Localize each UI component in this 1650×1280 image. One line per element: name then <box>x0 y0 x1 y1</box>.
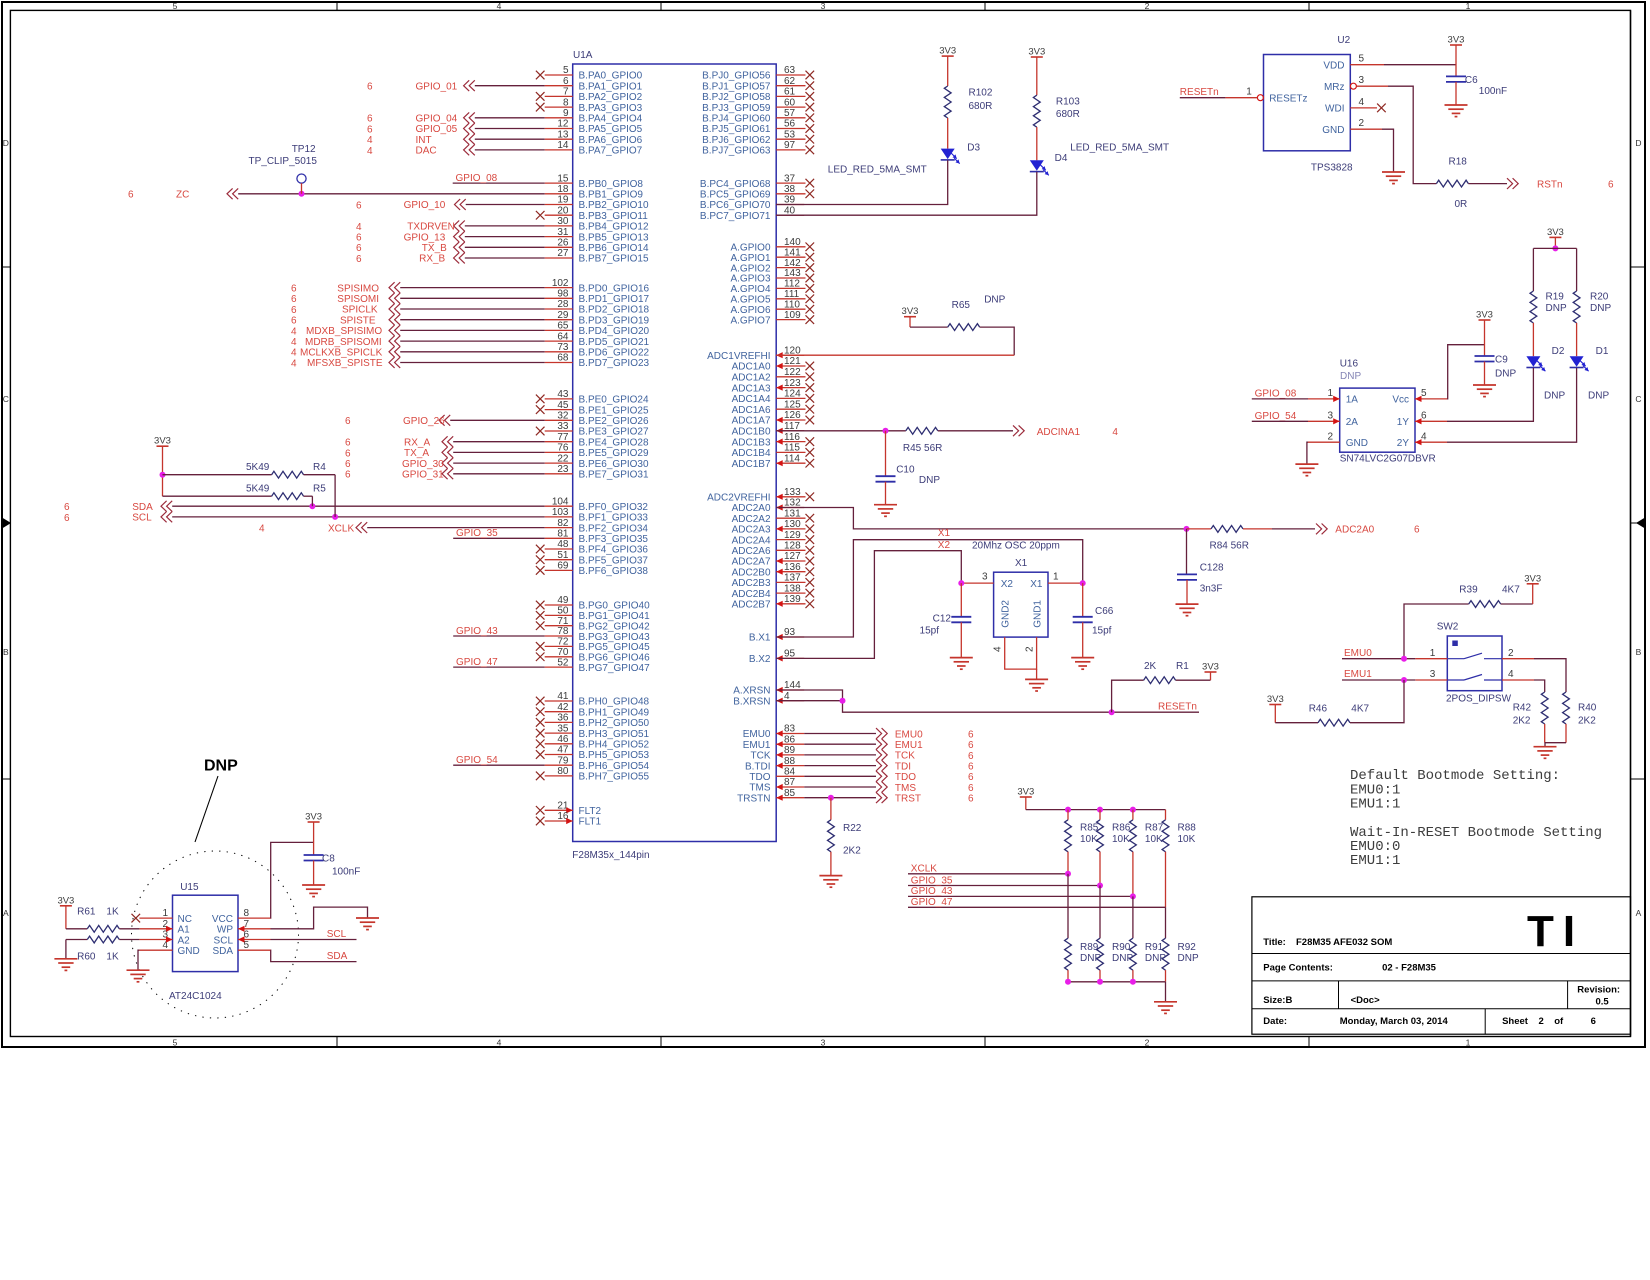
svg-text:GPIO_30: GPIO_30 <box>402 459 444 470</box>
svg-text:R22: R22 <box>843 823 862 834</box>
svg-text:56: 56 <box>784 119 796 130</box>
wire GPIO_43 <box>453 626 545 637</box>
svg-text:3: 3 <box>821 1038 826 1048</box>
wire RX_B <box>356 253 545 265</box>
svg-text:C8: C8 <box>322 854 335 865</box>
svg-text:TRST: TRST <box>895 794 921 805</box>
svg-text:R103: R103 <box>1056 97 1080 108</box>
svg-text:B.PJ5_GPIO61: B.PJ5_GPIO61 <box>702 124 771 135</box>
svg-text:R102: R102 <box>969 88 993 99</box>
svg-text:ADC2A2: ADC2A2 <box>732 514 771 525</box>
svg-text:02 - F28M35: 02 - F28M35 <box>1382 963 1437 974</box>
svg-text:GPIO_01: GPIO_01 <box>416 81 458 92</box>
svg-text:VCC: VCC <box>212 914 233 925</box>
svg-text:B.PB6_GPIO14: B.PB6_GPIO14 <box>579 243 649 254</box>
svg-text:ADC1A6: ADC1A6 <box>732 405 771 416</box>
svg-text:3V3: 3V3 <box>902 306 919 317</box>
svg-text:10K: 10K <box>1178 834 1196 845</box>
wire MDXB_SPISIMO <box>291 325 545 337</box>
ground (SW2 pulldowns) <box>1534 747 1557 759</box>
wire ZC with TP12 junction <box>128 188 545 200</box>
svg-text:B.PH6_GPIO54: B.PH6_GPIO54 <box>579 761 650 772</box>
svg-text:6: 6 <box>356 200 362 211</box>
svg-text:48: 48 <box>557 539 569 550</box>
svg-text:R86: R86 <box>1112 823 1131 834</box>
power 3V3 (R65) <box>902 306 919 327</box>
svg-text:of: of <box>1554 1016 1564 1027</box>
svg-text:143: 143 <box>784 268 801 279</box>
svg-text:B.PA4_GPIO4: B.PA4_GPIO4 <box>579 114 643 125</box>
svg-text:9: 9 <box>563 108 569 119</box>
svg-text:3: 3 <box>982 572 988 583</box>
svg-text:3V3: 3V3 <box>1028 47 1045 58</box>
LED D1 DNP <box>1570 323 1610 402</box>
svg-text:B.PG0_GPIO40: B.PG0_GPIO40 <box>579 601 651 612</box>
wire TCK <box>804 750 974 762</box>
svg-text:R92: R92 <box>1178 942 1197 953</box>
wire SDA (U15) <box>271 950 357 962</box>
svg-text:B.PF6_GPIO38: B.PF6_GPIO38 <box>579 566 649 577</box>
svg-text:TMS: TMS <box>895 783 916 794</box>
svg-text:76: 76 <box>557 443 569 454</box>
svg-text:3: 3 <box>1359 75 1365 86</box>
wire U16 Vcc to 3V3 <box>1447 345 1485 399</box>
svg-text:B.PC5_GPIO69: B.PC5_GPIO69 <box>700 190 771 201</box>
svg-text:DNP: DNP <box>1544 391 1565 402</box>
oscillator X1 20Mhz OSC 20ppm <box>958 541 1085 680</box>
svg-text:35: 35 <box>557 723 569 734</box>
wire SCL (U15) <box>271 929 357 940</box>
svg-text:4: 4 <box>291 337 297 348</box>
svg-text:1: 1 <box>1430 648 1436 659</box>
svg-text:ADCINA1: ADCINA1 <box>1037 427 1081 438</box>
svg-text:B.PE1_GPIO25: B.PE1_GPIO25 <box>579 405 649 416</box>
ground (C66) <box>1071 658 1094 670</box>
svg-text:B.PA1_GPIO1: B.PA1_GPIO1 <box>579 81 643 92</box>
svg-text:GND: GND <box>1322 125 1344 136</box>
svg-text:WP: WP <box>217 925 233 936</box>
svg-text:77: 77 <box>557 432 569 443</box>
svg-text:B.PE2_GPIO26: B.PE2_GPIO26 <box>579 416 649 427</box>
svg-text:WDI: WDI <box>1325 104 1344 115</box>
resistor R46 4K7 with 3V3 <box>1267 680 1404 726</box>
svg-text:3V3: 3V3 <box>939 46 956 57</box>
svg-text:6: 6 <box>291 305 297 316</box>
svg-text:142: 142 <box>784 258 801 269</box>
svg-text:U1A: U1A <box>573 50 593 61</box>
svg-text:2: 2 <box>1145 1038 1150 1048</box>
svg-text:DAC: DAC <box>416 146 437 157</box>
svg-text:3V3: 3V3 <box>1202 662 1219 673</box>
svg-text:RX_A: RX_A <box>404 437 430 448</box>
svg-text:GPIO_10: GPIO_10 <box>404 200 446 211</box>
wire GPIO_13 <box>356 231 545 243</box>
svg-text:26: 26 <box>557 238 569 249</box>
svg-text:49: 49 <box>557 595 569 606</box>
wire EMU1 <box>804 739 974 751</box>
svg-text:B.PH7_GPIO55: B.PH7_GPIO55 <box>579 772 650 783</box>
svg-text:3V3: 3V3 <box>57 895 74 906</box>
svg-text:6: 6 <box>345 438 351 449</box>
svg-text:52: 52 <box>557 657 569 668</box>
wire D3 cathode to pin 39 <box>776 160 948 204</box>
svg-text:3V3: 3V3 <box>154 436 171 447</box>
svg-text:80: 80 <box>557 766 569 777</box>
svg-text:C6: C6 <box>1465 75 1478 86</box>
svg-text:98: 98 <box>557 289 569 300</box>
wire TX_A <box>345 447 545 459</box>
svg-text:6: 6 <box>1414 525 1420 536</box>
svg-text:B.PA5_GPIO5: B.PA5_GPIO5 <box>579 124 643 135</box>
svg-text:6: 6 <box>563 76 569 87</box>
ground (U15 WP) <box>356 918 379 930</box>
svg-text:R60: R60 <box>77 952 96 963</box>
svg-text:B.PG2_GPIO42: B.PG2_GPIO42 <box>579 621 651 632</box>
svg-text:B.PH3_GPIO51: B.PH3_GPIO51 <box>579 729 650 740</box>
svg-text:6: 6 <box>291 284 297 295</box>
wire TX_B <box>356 242 545 254</box>
svg-text:31: 31 <box>557 227 569 238</box>
svg-text:B.PE6_GPIO30: B.PE6_GPIO30 <box>579 459 649 470</box>
svg-text:D4: D4 <box>1055 153 1068 164</box>
svg-text:127: 127 <box>784 551 801 562</box>
wire TXDRVEN <box>356 221 545 233</box>
svg-text:ADC2A7: ADC2A7 <box>732 557 771 568</box>
svg-text:B.XRSN: B.XRSN <box>733 696 770 707</box>
title block <box>1252 897 1631 1034</box>
svg-text:R90: R90 <box>1112 942 1131 953</box>
svg-text:3: 3 <box>1430 669 1436 680</box>
test point TP12 <box>249 144 318 194</box>
svg-text:4: 4 <box>497 1 502 11</box>
svg-text:33: 33 <box>557 421 569 432</box>
svg-text:GPIO_26: GPIO_26 <box>403 416 445 427</box>
svg-text:EMU0: EMU0 <box>743 729 771 740</box>
svg-text:1: 1 <box>1246 87 1252 98</box>
svg-text:LED_RED_5MA_SMT: LED_RED_5MA_SMT <box>828 165 927 176</box>
wire TRST <box>804 792 974 804</box>
svg-text:133: 133 <box>784 487 801 498</box>
svg-text:SPICLK: SPICLK <box>342 305 378 316</box>
svg-text:114: 114 <box>784 453 800 464</box>
wire U15 VCC to C8 <box>271 842 314 918</box>
svg-text:GPIO_43: GPIO_43 <box>911 886 953 897</box>
svg-text:F28M35 AFE032 SOM: F28M35 AFE032 SOM <box>1296 937 1392 948</box>
ground (U16 GND) <box>1295 442 1318 476</box>
svg-text:A.GPIO6: A.GPIO6 <box>730 305 770 316</box>
svg-text:A: A <box>1636 908 1642 918</box>
svg-text:R84 56R: R84 56R <box>1210 541 1249 552</box>
svg-text:115: 115 <box>784 443 800 454</box>
svg-text:100nF: 100nF <box>1479 86 1507 97</box>
wire GPIO_43 (bootmode) <box>908 886 1136 899</box>
svg-text:R1: R1 <box>1176 661 1189 672</box>
svg-text:109: 109 <box>784 310 801 321</box>
svg-text:20: 20 <box>557 205 569 216</box>
svg-text:ADC2B3: ADC2B3 <box>732 578 771 589</box>
svg-text:GPIO_47: GPIO_47 <box>456 657 498 668</box>
svg-text:Date:: Date: <box>1263 1016 1287 1027</box>
svg-text:ADC2A6: ADC2A6 <box>732 546 771 557</box>
resistor R60 1K <box>66 936 139 962</box>
wire GPIO_35 <box>453 528 545 539</box>
svg-text:69: 69 <box>557 561 569 572</box>
svg-text:MDXB_SPISIMO: MDXB_SPISIMO <box>306 326 382 337</box>
wire INT <box>367 134 545 146</box>
svg-text:C12: C12 <box>933 614 952 625</box>
wire SPISOMI <box>291 293 545 305</box>
svg-text:B.PJ0_GPIO56: B.PJ0_GPIO56 <box>702 71 771 82</box>
wire XCLK (bootmode) <box>908 864 1071 877</box>
svg-text:6: 6 <box>367 124 373 135</box>
capacitor C8 100nF with 3V3 <box>304 812 361 886</box>
LED D4 <box>1030 127 1169 175</box>
svg-text:6: 6 <box>291 316 297 327</box>
svg-text:ADC2B4: ADC2B4 <box>732 589 771 600</box>
svg-text:AT24C1024: AT24C1024 <box>169 991 222 1002</box>
svg-text:1Y: 1Y <box>1397 417 1410 428</box>
svg-text:ADC2A0: ADC2A0 <box>732 503 771 514</box>
svg-text:B.PA2_GPIO2: B.PA2_GPIO2 <box>579 92 643 103</box>
power 3V3 (R103) <box>1028 47 1045 96</box>
svg-text:C: C <box>1635 394 1641 404</box>
svg-text:2: 2 <box>1539 1016 1544 1027</box>
svg-text:MRz: MRz <box>1324 82 1345 93</box>
svg-text:A1: A1 <box>178 925 191 936</box>
svg-text:6: 6 <box>1591 1016 1596 1027</box>
svg-text:A.GPIO5: A.GPIO5 <box>730 295 770 306</box>
svg-text:B: B <box>3 647 9 657</box>
svg-text:6: 6 <box>356 254 362 265</box>
resistor R22 2K2 <box>828 798 862 876</box>
svg-text:Monday, March 03, 2014: Monday, March 03, 2014 <box>1340 1016 1449 1027</box>
wire GPIO_47 <box>453 657 545 668</box>
svg-text:X1: X1 <box>1030 579 1043 590</box>
svg-text:36: 36 <box>557 713 569 724</box>
wire SCL <box>64 512 545 524</box>
svg-text:B.X1: B.X1 <box>749 633 771 644</box>
wire RESETn (A.XRSN/B.XRSN) <box>776 690 1199 715</box>
svg-text:X1: X1 <box>938 528 951 539</box>
svg-text:SCL: SCL <box>132 513 152 524</box>
svg-text:A.GPIO7: A.GPIO7 <box>730 315 770 326</box>
svg-text:B.PJ2_GPIO58: B.PJ2_GPIO58 <box>702 92 771 103</box>
svg-text:D: D <box>1635 138 1641 148</box>
svg-text:3V3: 3V3 <box>1524 573 1541 584</box>
svg-text:3V3: 3V3 <box>1017 787 1034 798</box>
svg-text:2: 2 <box>1359 118 1365 129</box>
svg-text:B.PD3_GPIO19: B.PD3_GPIO19 <box>579 315 650 326</box>
resistor R42 2K2 <box>1513 680 1548 743</box>
svg-text:EMU1: EMU1 <box>1344 669 1372 680</box>
resistor R87 10K <box>1130 810 1164 897</box>
svg-text:B.PH1_GPIO49: B.PH1_GPIO49 <box>579 707 650 718</box>
svg-text:4: 4 <box>993 646 1004 652</box>
svg-text:4: 4 <box>1359 97 1365 108</box>
svg-text:3V3: 3V3 <box>305 812 322 823</box>
svg-text:Sheet: Sheet <box>1502 1016 1529 1027</box>
svg-text:B.PD6_GPIO22: B.PD6_GPIO22 <box>579 348 650 359</box>
svg-text:SPISOMI: SPISOMI <box>337 294 379 305</box>
svg-text:B.PE4_GPIO28: B.PE4_GPIO28 <box>579 437 649 448</box>
resistor R65 DNP <box>776 295 1014 356</box>
svg-text:2: 2 <box>1145 1 1150 11</box>
svg-text:R20: R20 <box>1590 292 1609 303</box>
svg-text:680R: 680R <box>1056 109 1080 120</box>
wire XCLK <box>259 522 545 534</box>
svg-text:DNP: DNP <box>1546 303 1567 314</box>
wire GPIO_30 <box>345 458 545 470</box>
svg-text:138: 138 <box>784 583 801 594</box>
svg-text:MDRB_SPISOMI: MDRB_SPISOMI <box>305 337 382 348</box>
svg-text:6: 6 <box>367 82 373 93</box>
svg-text:GND1: GND1 <box>1032 600 1043 628</box>
resistor R1 2K with 3V3 <box>1112 661 1219 712</box>
svg-text:GPIO_08: GPIO_08 <box>1255 389 1297 400</box>
svg-text:R18: R18 <box>1449 157 1468 168</box>
svg-text:ADC1A3: ADC1A3 <box>732 383 771 394</box>
svg-text:2POS_DIPSW: 2POS_DIPSW <box>1446 694 1512 705</box>
svg-text:2K2: 2K2 <box>1513 716 1531 727</box>
svg-text:B.PA3_GPIO3: B.PA3_GPIO3 <box>579 103 643 114</box>
svg-text:FLT2: FLT2 <box>579 806 602 817</box>
svg-text:XCLK: XCLK <box>911 864 937 875</box>
wire MCLKXB_SPICLK <box>291 346 545 358</box>
IC U1A F28M35x_144pin <box>536 50 814 861</box>
svg-text:EMU0: EMU0 <box>1344 648 1372 659</box>
svg-text:3V3: 3V3 <box>1476 310 1493 321</box>
wire SPISTE <box>291 314 545 326</box>
wire TDI <box>804 760 974 772</box>
svg-text:3: 3 <box>1327 411 1333 422</box>
resistor R18 0R and RSTn output <box>1388 86 1614 210</box>
svg-text:ADC1B7: ADC1B7 <box>732 459 771 470</box>
svg-text:B.PD0_GPIO16: B.PD0_GPIO16 <box>579 283 650 294</box>
svg-text:2K2: 2K2 <box>1578 716 1596 727</box>
svg-text:DNP: DNP <box>1588 391 1609 402</box>
svg-text:GND: GND <box>178 946 200 957</box>
IC U16 SN74LVC2G07DBVR (DNP) <box>1308 359 1447 465</box>
wire GPIO_26 <box>345 415 545 427</box>
wire DAC <box>367 145 545 157</box>
power 3V3 (R85-R88) <box>1017 787 1165 813</box>
svg-text:112: 112 <box>784 279 800 290</box>
wire TDO <box>804 771 974 783</box>
svg-text:GPIO_54: GPIO_54 <box>456 755 498 766</box>
svg-text:4: 4 <box>367 146 373 157</box>
svg-text:3n3F: 3n3F <box>1200 584 1223 595</box>
svg-text:D1: D1 <box>1596 346 1609 357</box>
power 3V3 (R61) <box>57 895 74 929</box>
svg-text:1A: 1A <box>1346 395 1359 406</box>
svg-text:4: 4 <box>259 524 265 535</box>
svg-text:6: 6 <box>356 243 362 254</box>
svg-text:63: 63 <box>784 65 796 76</box>
svg-text:R91: R91 <box>1145 942 1164 953</box>
svg-text:5: 5 <box>1359 54 1365 65</box>
svg-text:B.PE3_GPIO27: B.PE3_GPIO27 <box>579 427 649 438</box>
svg-text:R45 56R: R45 56R <box>903 443 942 454</box>
svg-text:12: 12 <box>557 119 569 130</box>
svg-text:DNP: DNP <box>1340 371 1361 382</box>
svg-text:TXDRVEN: TXDRVEN <box>407 222 455 233</box>
svg-text:B.PH4_GPIO52: B.PH4_GPIO52 <box>579 740 650 751</box>
svg-text:86: 86 <box>784 734 796 745</box>
wire GPIO_04 <box>367 112 545 124</box>
svg-text:B.PF4_GPIO36: B.PF4_GPIO36 <box>579 545 649 556</box>
resistor R88 10K <box>1162 810 1196 908</box>
svg-text:DNP: DNP <box>1495 369 1516 380</box>
svg-text:1: 1 <box>1466 1 1471 11</box>
svg-text:131: 131 <box>784 508 801 519</box>
svg-text:ADC1B0: ADC1B0 <box>732 427 771 438</box>
svg-text:4: 4 <box>1421 431 1427 442</box>
svg-text:43: 43 <box>557 389 569 400</box>
svg-text:ADC1VREFHI: ADC1VREFHI <box>707 351 770 362</box>
svg-text:41: 41 <box>557 691 569 702</box>
svg-text:4: 4 <box>1112 427 1118 438</box>
svg-text:2: 2 <box>1327 431 1333 442</box>
svg-text:Size:B: Size:B <box>1263 995 1292 1006</box>
svg-text:2K2: 2K2 <box>843 846 861 857</box>
svg-text:RESETn: RESETn <box>1158 702 1197 713</box>
wire GPIO_08 (to U16 1A) <box>1252 389 1308 400</box>
svg-text:MCLKXB_SPICLK: MCLKXB_SPICLK <box>300 348 383 359</box>
svg-text:130: 130 <box>784 519 801 530</box>
svg-text:88: 88 <box>784 756 796 767</box>
svg-text:TDI: TDI <box>895 761 911 772</box>
svg-text:SCL: SCL <box>214 935 234 946</box>
wire GPIO_54 (to U16 2A) <box>1252 411 1308 422</box>
wire ADC2A0 with R84 56R <box>776 508 1420 552</box>
svg-text:57: 57 <box>784 108 796 119</box>
svg-text:R42: R42 <box>1513 703 1532 714</box>
IC U2 TPS3828 <box>1225 35 1388 173</box>
svg-text:B.PC4_GPIO68: B.PC4_GPIO68 <box>700 179 771 190</box>
svg-text:GPIO_05: GPIO_05 <box>416 124 458 135</box>
svg-text:Vcc: Vcc <box>1392 395 1409 406</box>
wire GPIO_10 <box>356 199 545 211</box>
svg-text:B.PE5_GPIO29: B.PE5_GPIO29 <box>579 448 649 459</box>
ground (U15 GND pin) <box>127 950 150 982</box>
svg-text:MFSXB_SPISTE: MFSXB_SPISTE <box>307 358 383 369</box>
svg-text:SN74LVC2G07DBVR: SN74LVC2G07DBVR <box>1340 454 1436 465</box>
svg-text:C128: C128 <box>1200 563 1224 574</box>
svg-text:R88: R88 <box>1178 823 1197 834</box>
wire R42/R40 to ground <box>1545 743 1566 747</box>
svg-text:R65: R65 <box>952 300 971 311</box>
svg-text:TX_A: TX_A <box>404 448 429 459</box>
svg-text:B.PF0_GPIO32: B.PF0_GPIO32 <box>579 502 649 513</box>
svg-text:D: D <box>3 138 9 148</box>
capacitor C128 3n3F <box>1177 529 1224 604</box>
svg-text:B.PA6_GPIO6: B.PA6_GPIO6 <box>579 135 643 146</box>
svg-text:C9: C9 <box>1495 355 1508 366</box>
svg-text:18: 18 <box>557 184 569 195</box>
svg-text:R39: R39 <box>1459 585 1478 596</box>
svg-text:6: 6 <box>1421 411 1427 422</box>
svg-text:DNP: DNP <box>919 475 940 486</box>
resistor R86 10K <box>1097 810 1131 886</box>
svg-text:RESETn: RESETn <box>1180 87 1219 98</box>
svg-text:B.PH2_GPIO50: B.PH2_GPIO50 <box>579 718 650 729</box>
svg-text:4: 4 <box>497 1038 502 1048</box>
svg-text:XCLK: XCLK <box>328 523 354 534</box>
svg-text:EMU1: EMU1 <box>895 740 923 751</box>
svg-text:42: 42 <box>557 702 569 713</box>
svg-text:B.PA7_GPIO7: B.PA7_GPIO7 <box>579 146 643 157</box>
resistor R92 DNP <box>1162 907 1199 982</box>
